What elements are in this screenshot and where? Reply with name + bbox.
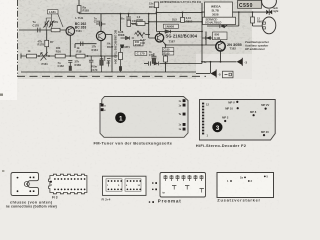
wire diode row y31.5 xyxy=(157,31,203,33)
wire y73.5 xyxy=(196,73,210,75)
Zusatzverstaerker box xyxy=(217,173,274,198)
wire y63.5 xyxy=(160,63,203,65)
bowtie connector xyxy=(266,10,272,15)
wire top rail y13.7 xyxy=(79,13,157,15)
info box 2 xyxy=(203,17,236,24)
electrolytic C20 xyxy=(126,17,131,19)
input terminal xyxy=(20,54,22,59)
vertical x148.7 xyxy=(149,14,156,38)
pot diagonal on rail xyxy=(41,52,48,61)
resistor R601 right xyxy=(251,17,255,23)
dark label box top right xyxy=(238,1,262,9)
boxed label C170 xyxy=(135,51,147,55)
wire T1 base y30 xyxy=(19,29,66,31)
cap C165 xyxy=(96,22,106,26)
diode -3 xyxy=(237,59,243,65)
boxed label 800/C19 xyxy=(213,32,228,40)
cap + diode series y63.5 xyxy=(148,61,150,65)
Fl 2+4 connector xyxy=(103,176,147,195)
ground rail xyxy=(21,71,196,73)
vertical x182.5 xyxy=(182,12,184,17)
boxed label P108 xyxy=(134,40,144,46)
wire T1-T2 coupling y43.7 xyxy=(75,44,97,48)
vertical x79 xyxy=(78,0,80,14)
trimmer capacitors xyxy=(44,21,55,28)
diode at T2 out xyxy=(126,36,130,39)
resistor R157 top xyxy=(154,2,158,8)
pcb1 right pins xyxy=(183,99,186,102)
schematic tinted background xyxy=(18,0,252,79)
PCB1 marker 1 xyxy=(115,113,126,124)
wire T2 to pot y34.5 xyxy=(106,35,150,73)
Fi3 connector xyxy=(49,174,87,194)
cap-diode leads y63.5 xyxy=(144,63,148,65)
wire top rail right y12.4 xyxy=(157,11,203,13)
transistor T1 xyxy=(66,27,75,36)
DIN connector bottom left xyxy=(11,173,39,196)
preomat side markers xyxy=(152,182,154,184)
diode near T4 xyxy=(206,36,211,40)
pcb2 left pin column xyxy=(202,103,204,135)
vertical x120.5 xyxy=(120,14,122,31)
diode y26 xyxy=(220,24,225,28)
diode -5 xyxy=(211,70,217,76)
wire diode y26 xyxy=(207,25,239,27)
T3 collector xyxy=(159,32,161,34)
MP black marker xyxy=(120,45,124,49)
resistors on rail y56 xyxy=(27,54,37,58)
transistor T3 xyxy=(155,34,163,42)
Preomat box xyxy=(160,173,206,198)
transistor T2 xyxy=(96,31,105,40)
vertical x206 xyxy=(205,32,207,46)
resistor row y23.5 leads xyxy=(131,23,149,25)
resistor R162 vertical x165.5 xyxy=(162,48,174,52)
transistor T4 xyxy=(216,42,225,51)
pcb1 left pins xyxy=(101,104,104,107)
resistor vertical x120.5 lower xyxy=(119,52,123,59)
boxed label L181 xyxy=(48,10,59,14)
dashed bottom border xyxy=(17,75,206,77)
coupling cap T1-T2 xyxy=(81,42,83,47)
dash-dot left border xyxy=(17,0,19,77)
capacitor on T1 base wire xyxy=(38,28,40,33)
diode on y31.5 xyxy=(165,30,171,34)
PCB2 marker 3 xyxy=(212,122,222,132)
diagonal from box xyxy=(224,18,235,28)
electrolytic C7B xyxy=(151,53,156,58)
grounds / caps bottom mid xyxy=(68,60,72,66)
vertical x49.5 xyxy=(46,30,48,56)
vertical x128.5 cap lead xyxy=(128,14,130,17)
T3 emitter down xyxy=(163,41,166,72)
resistor on T1 base wire xyxy=(51,28,60,32)
resistor R208 xyxy=(136,22,145,26)
vertical T1 emitter xyxy=(69,35,71,56)
T4 emitter xyxy=(220,51,222,62)
speaker 2 xyxy=(262,17,276,34)
rail mid-left y56 xyxy=(21,55,118,57)
wire T4 collector net y38 xyxy=(202,38,221,42)
vertical x252.5 speaker branch xyxy=(253,12,263,26)
small box lower right xyxy=(223,71,234,78)
vertical x156.5 xyxy=(156,8,158,32)
vertical x238.8 xyxy=(238,12,240,26)
edge tick marks xyxy=(0,94,3,96)
speaker top (clipped) xyxy=(262,0,277,8)
wire y61.8 xyxy=(202,61,237,63)
wire mid-right rail y45 xyxy=(166,44,216,46)
resistor 17k vertical x46.7 xyxy=(45,40,49,46)
vertical T2 up xyxy=(100,14,102,32)
vertical x202 xyxy=(201,3,203,64)
vertical T2 down xyxy=(100,41,102,56)
resistor R10 on x79 xyxy=(77,6,81,13)
vertical x210.5 xyxy=(210,62,212,74)
resistor R803 vertical x182.5 xyxy=(181,17,185,22)
wire speaker rail y12 xyxy=(202,11,266,13)
potentiometer zigzag xyxy=(135,31,146,38)
boxed label 1N908 xyxy=(163,24,178,28)
paper background xyxy=(0,0,280,210)
WEGA info box xyxy=(205,2,233,17)
